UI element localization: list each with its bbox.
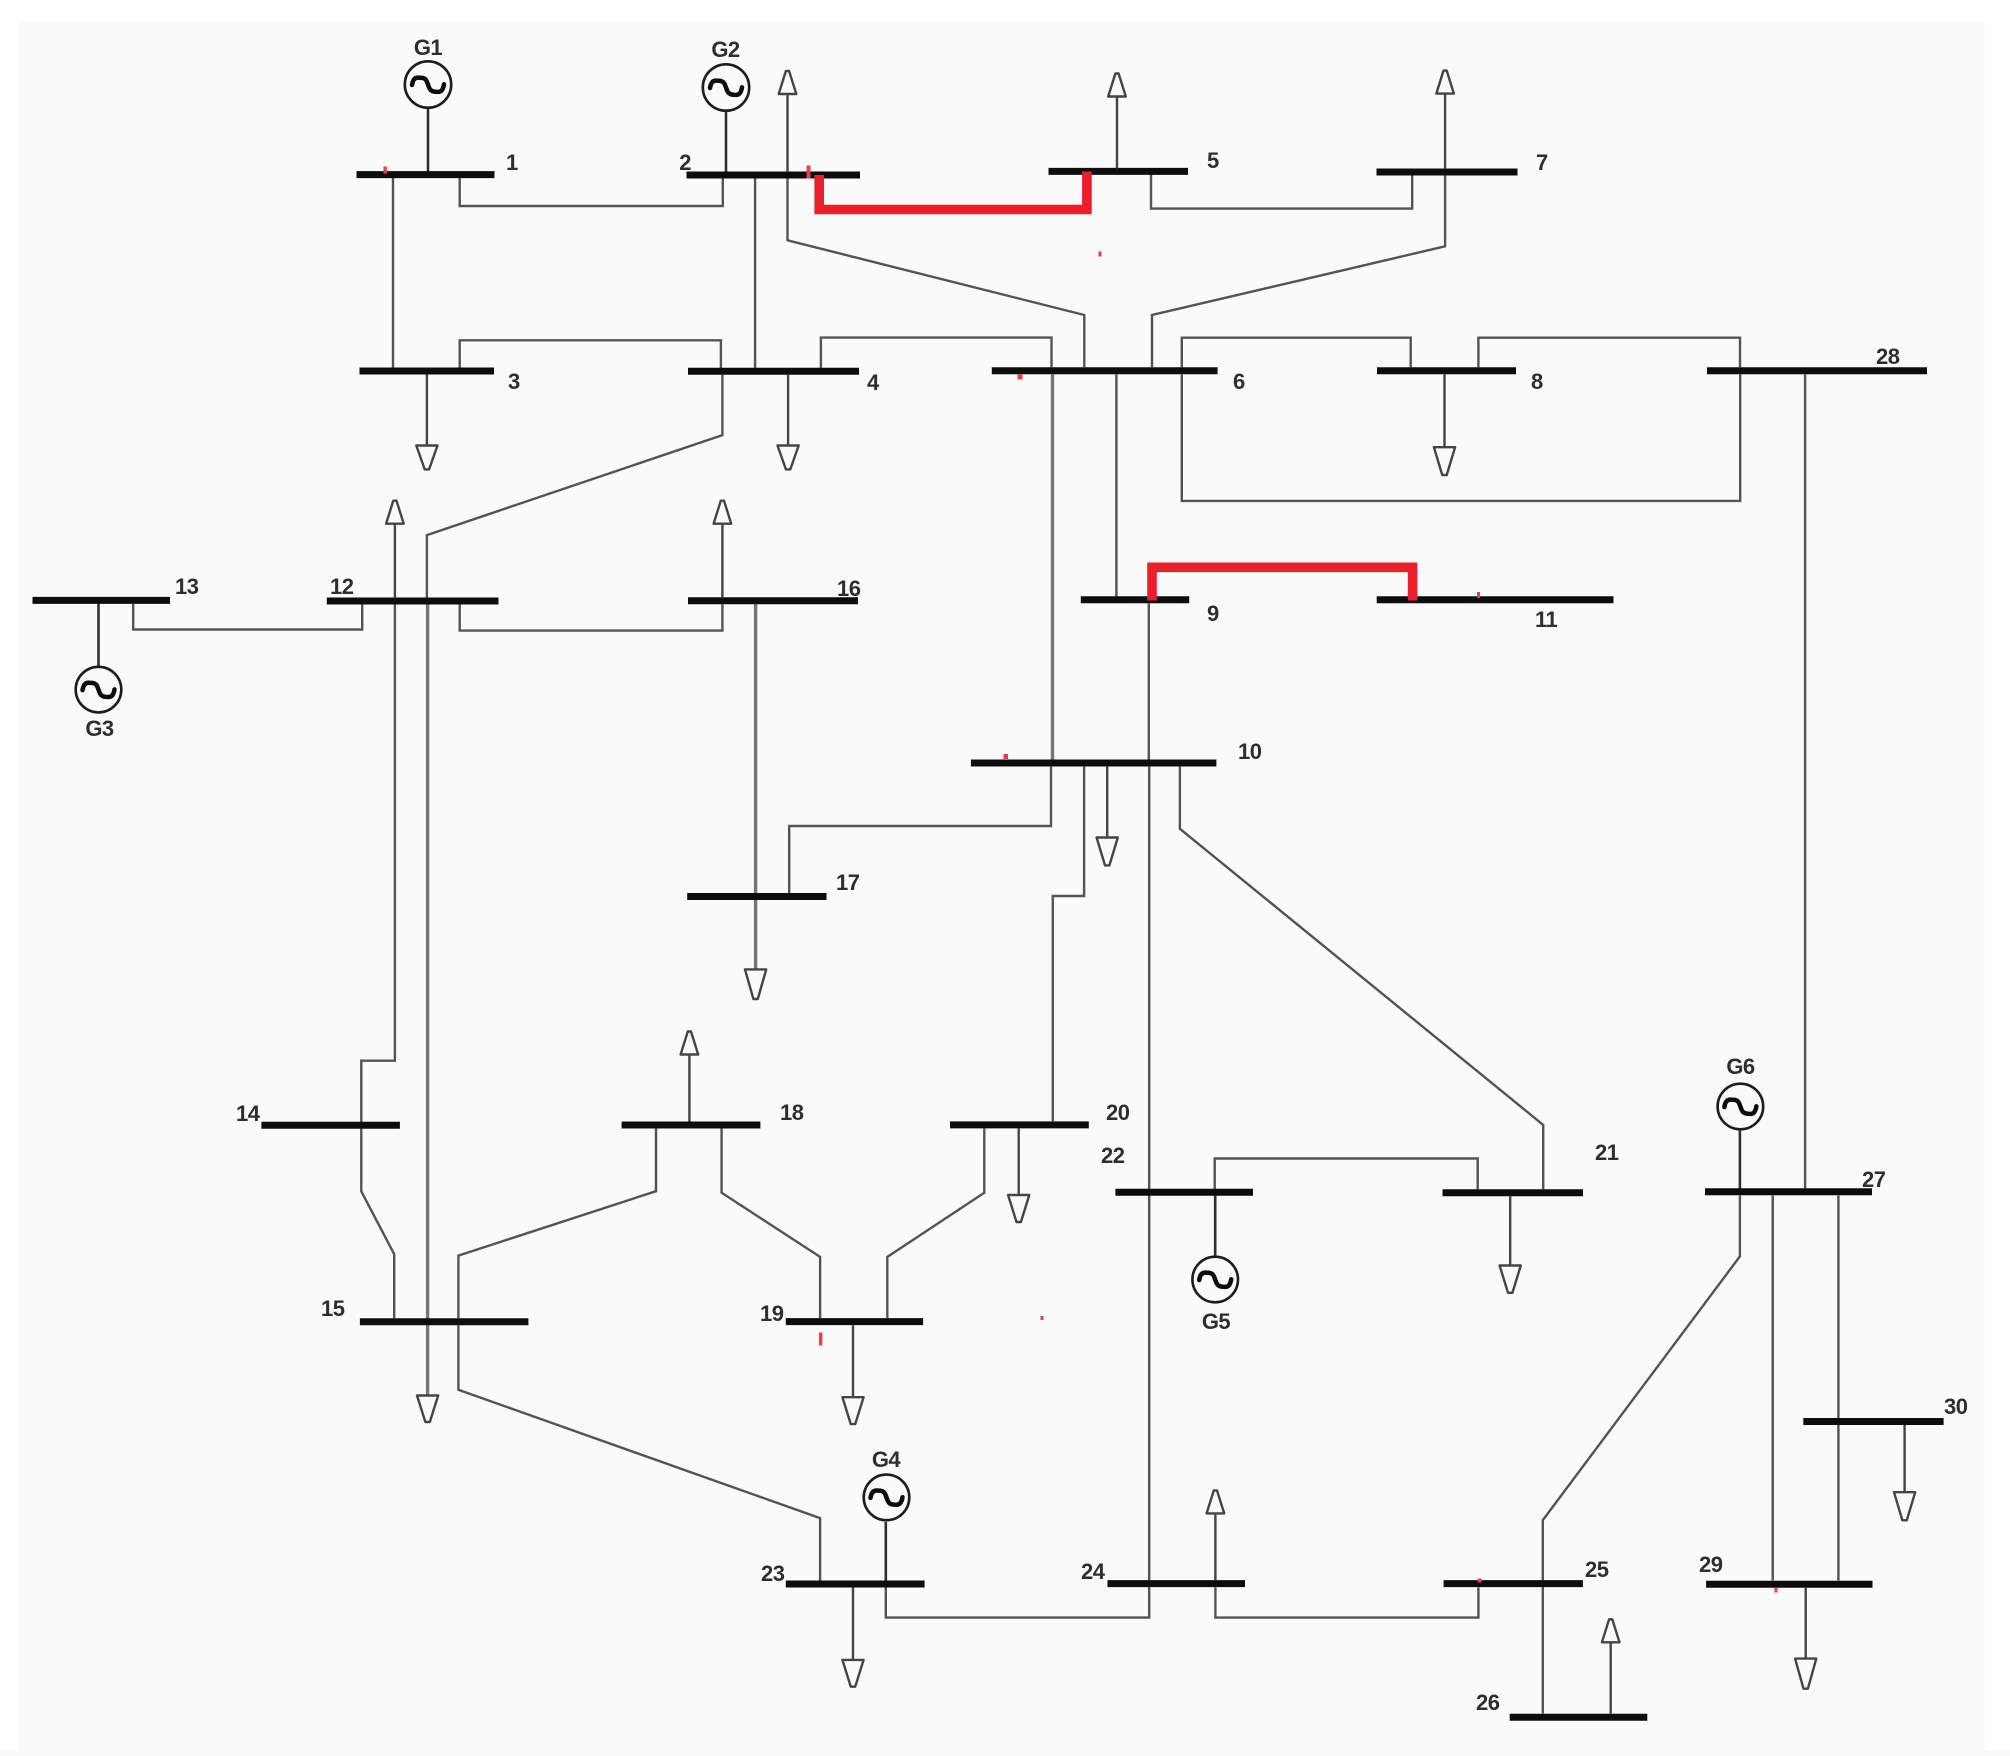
bus 29 <box>1706 1581 1872 1588</box>
svg-text:G6: G6 <box>1726 1054 1755 1079</box>
bus 7 <box>1377 169 1518 176</box>
bus 18 <box>622 1122 761 1129</box>
svg-text:2: 2 <box>679 150 691 175</box>
wire 6-7 <box>1152 175 1445 367</box>
generator G4 <box>864 1475 910 1521</box>
load arrow bus 19 <box>842 1325 863 1424</box>
bus 4 <box>688 368 859 375</box>
wire 15-23 <box>458 1325 820 1580</box>
generator G6 lead wire <box>1739 1130 1742 1189</box>
svg-text:17: 17 <box>836 870 860 895</box>
wire 3-4 <box>460 340 721 369</box>
wire 5-7 <box>1151 174 1412 209</box>
bus 19 <box>786 1318 923 1325</box>
generator G6 <box>1718 1084 1764 1130</box>
bus 28 <box>1707 367 1927 374</box>
load arrow bus 8 <box>1434 374 1455 475</box>
svg-text:6: 6 <box>1233 369 1245 394</box>
svg-text:G4: G4 <box>872 1447 902 1472</box>
bus 27 <box>1705 1188 1872 1195</box>
load arrow bus 3 <box>416 375 437 470</box>
load arrow bus 20 <box>1008 1128 1029 1222</box>
wire 1-3 <box>392 177 394 368</box>
svg-text:9: 9 <box>1207 601 1219 626</box>
generator G1 lead wire <box>427 108 430 173</box>
svg-text:21: 21 <box>1595 1140 1619 1165</box>
svg-text:25: 25 <box>1585 1557 1609 1582</box>
wire 4-12 <box>427 375 723 598</box>
svg-text:G5: G5 <box>1202 1309 1231 1334</box>
injection arrow bus 12 <box>386 501 404 598</box>
bus 3 <box>360 368 495 375</box>
wire 12-15 feeder <box>426 605 429 1396</box>
bus 16 <box>688 597 858 604</box>
wire 10-22-24 <box>886 767 1149 1618</box>
svg-text:27: 27 <box>1862 1167 1886 1192</box>
bus 15 <box>360 1318 529 1325</box>
bus 26 <box>1510 1714 1648 1721</box>
wire 8-28 <box>1478 338 1740 368</box>
wire 25-27 / 25-26 <box>1543 1196 1740 1714</box>
load arrow bus 23 <box>842 1588 863 1687</box>
svg-text:20: 20 <box>1106 1100 1130 1125</box>
wire 6-9 <box>1115 374 1117 596</box>
load arrow bus 4 <box>778 375 799 470</box>
injection arrow bus 7 <box>1436 71 1454 169</box>
generator G3 lead wire <box>97 604 100 667</box>
svg-text:12: 12 <box>330 574 354 599</box>
bus 13 <box>33 597 171 604</box>
bus 21 <box>1443 1189 1584 1196</box>
svg-text:7: 7 <box>1536 150 1548 175</box>
bus 12 <box>327 598 499 605</box>
svg-text:30: 30 <box>1944 1394 1968 1419</box>
svg-text:24: 24 <box>1081 1559 1106 1584</box>
wire 18-19 <box>722 1129 821 1319</box>
load arrow bus 21 <box>1500 1196 1521 1293</box>
wire 6-10 <box>1051 374 1054 760</box>
load arrow bus 29 <box>1795 1588 1816 1689</box>
generator G2 lead wire <box>725 112 728 173</box>
bus 8 <box>1377 367 1516 374</box>
svg-text:G3: G3 <box>85 716 114 741</box>
svg-text:4: 4 <box>867 370 880 395</box>
svg-text:8: 8 <box>1531 369 1543 394</box>
highlighted (overloaded) line 9-11 <box>1152 567 1413 600</box>
svg-text:29: 29 <box>1699 1552 1723 1577</box>
wire 6-28 <box>1182 374 1740 501</box>
bus 1 <box>357 171 495 178</box>
svg-text:G1: G1 <box>414 35 443 60</box>
load arrow bus 10 <box>1097 767 1118 866</box>
svg-text:26: 26 <box>1476 1690 1500 1715</box>
svg-text:22: 22 <box>1101 1143 1125 1168</box>
bus 20 <box>950 1121 1089 1128</box>
stray red marks (image artifacts) <box>384 167 388 174</box>
bus 6 <box>992 367 1218 374</box>
load arrow bus 30 <box>1894 1425 1915 1520</box>
load arrow bus 17 <box>745 969 766 999</box>
bus 17 <box>687 893 826 900</box>
wire 12-13 <box>133 604 362 630</box>
svg-text:18: 18 <box>780 1100 804 1125</box>
bus 14 <box>261 1122 400 1129</box>
wire 4-6 <box>821 338 1052 369</box>
wire 19-20 <box>887 1129 984 1319</box>
generator G5 lead wire <box>1214 1195 1217 1256</box>
wire 2-6 <box>788 178 1085 367</box>
wire 24-25 <box>1215 1587 1478 1617</box>
injection arrow bus 24 <box>1207 1490 1225 1580</box>
wire 1-2 <box>460 177 723 206</box>
wire 27-30 / 30-29 <box>1837 1196 1839 1581</box>
bus 2 <box>687 172 861 179</box>
highlighted (overloaded) line 2-5 <box>819 172 1087 210</box>
injection arrow bus 2 <box>779 71 797 172</box>
injection arrow bus 18 <box>681 1032 699 1122</box>
generator G3 <box>76 667 122 713</box>
svg-text:3: 3 <box>508 369 520 394</box>
wire 9-10 <box>1148 603 1150 759</box>
svg-text:G2: G2 <box>711 37 740 62</box>
wire 10-17 <box>789 767 1051 893</box>
svg-text:28: 28 <box>1876 344 1900 369</box>
bus 30 <box>1803 1418 1943 1425</box>
bus 25 <box>1444 1580 1583 1587</box>
svg-text:1: 1 <box>506 150 518 175</box>
wire 21-22 <box>1215 1159 1478 1196</box>
svg-text:14: 14 <box>236 1101 261 1126</box>
svg-text:16: 16 <box>837 576 861 601</box>
load arrow bus 15 <box>417 1396 438 1423</box>
wire 10-21 <box>1180 767 1543 1190</box>
generator G1 <box>405 61 451 107</box>
wire 12-16 <box>460 604 723 630</box>
bus 24 <box>1108 1580 1246 1587</box>
wire 16-17 feeder <box>754 604 757 969</box>
bus 22 <box>1115 1189 1253 1196</box>
svg-text:13: 13 <box>175 574 199 599</box>
bus 9 <box>1081 596 1189 603</box>
svg-text:15: 15 <box>321 1296 345 1321</box>
wire 2-4 <box>754 178 756 368</box>
wire 10-20 <box>1053 767 1084 1122</box>
svg-text:11: 11 <box>1535 607 1558 632</box>
wire 28-27 <box>1804 374 1806 1188</box>
injection arrow bus 26 <box>1602 1619 1620 1713</box>
generator G5 <box>1192 1257 1238 1303</box>
wire 27-29 <box>1771 1196 1773 1581</box>
bus 23 <box>786 1581 925 1588</box>
bus 11 <box>1377 596 1614 603</box>
bus 10 <box>971 760 1217 767</box>
svg-text:23: 23 <box>761 1561 785 1586</box>
wire 15-18 <box>458 1129 656 1319</box>
svg-text:5: 5 <box>1207 148 1219 173</box>
injection arrow bus 5 <box>1108 74 1126 169</box>
svg-text:10: 10 <box>1238 739 1262 764</box>
bus 5 <box>1049 168 1189 175</box>
generator G2 <box>703 64 749 110</box>
wire 6-8 <box>1182 338 1411 368</box>
svg-text:19: 19 <box>760 1301 784 1326</box>
wire 12-14 / 14-15 <box>361 605 395 1319</box>
injection arrow bus 16 <box>714 501 732 598</box>
generator G4 lead wire <box>884 1522 887 1581</box>
